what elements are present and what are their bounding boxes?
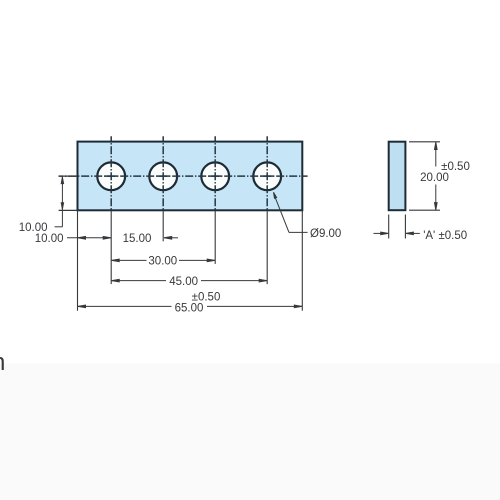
svg-text:30.00: 30.00 (148, 256, 177, 268)
svg-text:n: n (0, 349, 5, 376)
svg-text:65.00: 65.00 (175, 302, 204, 314)
extension line plate left edge (77, 210, 79, 310)
plate (front view) (78, 142, 303, 211)
dimension 10.00 vertical (hole center to bottom edge) (55, 177, 64, 227)
center cross hole at x=163.2 (157, 175, 169, 177)
extension line plate right edge (301, 210, 303, 310)
center cross hole at x=267.2 (261, 175, 273, 177)
svg-text:Ø9.00: Ø9.00 (310, 228, 341, 240)
horizontal centerline (59, 175, 308, 177)
dimension 15.00 (hole H1 to hole H2) (164, 237, 178, 240)
extension line below hole H2 (162, 210, 164, 241)
extension line plate bottom edge (leftward) (59, 209, 78, 211)
extension line side thickness right (404, 215, 406, 239)
svg-text:45.00: 45.00 (169, 276, 198, 288)
center cross hole at x=111.2 (105, 175, 117, 177)
svg-text:15.00: 15.00 (123, 233, 152, 245)
vertical centerline hole H3 (214, 136, 216, 210)
hole H3 (201, 162, 229, 190)
svg-text:20.00: 20.00 (420, 172, 449, 184)
extension line side top (409, 141, 440, 143)
dimension 20.00 (height, side view) (435, 142, 438, 210)
vertical centerline hole H4 (266, 136, 268, 210)
dimension 'A' thickness (374, 232, 420, 235)
vertical centerline hole H1 (110, 136, 112, 210)
extension line side bottom (409, 209, 440, 211)
vertical centerline hole H2 (162, 136, 164, 210)
dimension 45.00 (hole H1 to hole H4) (111, 279, 267, 282)
background band (0, 364, 500, 500)
dimension 10.00 horizontal (left edge to hole H1) (67, 237, 111, 240)
hole H4 (253, 162, 281, 190)
plate (side view) (389, 142, 406, 211)
hole H1 (97, 162, 125, 190)
hole H2 (149, 162, 177, 190)
svg-text:10.00: 10.00 (35, 233, 64, 245)
extension line below hole H3 (214, 210, 216, 264)
dimension 30.00 (hole H1 to hole H3) (111, 259, 215, 262)
dimension 65.00 (overall width) (78, 305, 303, 308)
center cross hole at x=215.2 (209, 175, 221, 177)
svg-text:'A' ±0.50: 'A' ±0.50 (423, 230, 467, 242)
leader Ø9.00 (274, 192, 308, 232)
extension line below hole H4 (266, 210, 268, 284)
extension line below hole H1 (110, 210, 112, 284)
extension line side thickness left (388, 215, 390, 239)
